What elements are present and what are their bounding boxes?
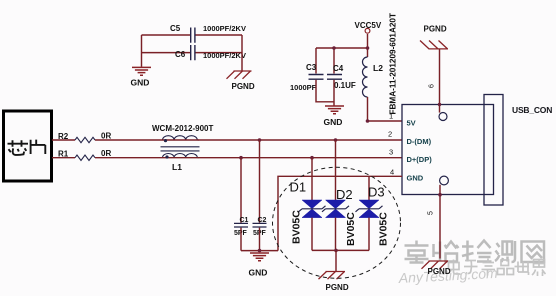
wire bus to PGND bbox=[335, 250, 337, 271]
svg-text:D+(DP): D+(DP) bbox=[407, 155, 433, 164]
svg-text:USB_CON: USB_CON bbox=[512, 105, 552, 115]
wire D2 to bus bbox=[335, 218, 337, 251]
wire C1 drop bbox=[240, 158, 242, 223]
svg-text:1000PF: 1000PF bbox=[290, 83, 317, 92]
svg-text:C6: C6 bbox=[175, 50, 186, 59]
wire L1 to pin2 (D- line) bbox=[198, 139, 402, 141]
svg-text:BV05C: BV05C bbox=[345, 212, 357, 246]
connector USB_CON main box bbox=[402, 105, 494, 195]
wire C3/C4 bottoms to GND bbox=[316, 80, 334, 106]
svg-text:D-(DM): D-(DM) bbox=[407, 137, 432, 146]
svg-text:D2: D2 bbox=[336, 187, 353, 202]
wire C6 row bbox=[142, 52, 243, 54]
svg-text:GND: GND bbox=[249, 268, 268, 278]
子 bbox=[464, 261, 478, 274]
node D- to D2 bbox=[334, 138, 338, 142]
品 bbox=[498, 260, 514, 275]
svg-text:1000PF/2KV: 1000PF/2KV bbox=[203, 51, 246, 60]
svg-text:D3: D3 bbox=[368, 185, 385, 200]
capacitor C3 bbox=[309, 75, 324, 80]
峪 bbox=[434, 242, 459, 262]
svg-text:3: 3 bbox=[389, 148, 393, 157]
wire C5/C6 right vertical bbox=[241, 35, 243, 71]
wire C5 row bbox=[142, 34, 243, 36]
svg-text:L1: L1 bbox=[172, 162, 182, 172]
wire L1 to pin3 (D+ line) bbox=[198, 157, 402, 159]
svg-text:C1: C1 bbox=[240, 217, 249, 224]
检 bbox=[462, 241, 492, 262]
ground GND bottom bbox=[250, 253, 269, 261]
wire D1 to bus bbox=[311, 218, 313, 251]
网 bbox=[522, 242, 545, 263]
wire pin5 to PGND bottom-right bbox=[439, 185, 441, 259]
wire R1 to chip (D+ net) bbox=[52, 157, 75, 159]
svg-text:GND: GND bbox=[131, 78, 150, 88]
svg-text:0.1UF: 0.1UF bbox=[334, 81, 356, 90]
power ground PGND bottom-center bbox=[319, 272, 346, 280]
svg-text:R1: R1 bbox=[58, 150, 69, 159]
wire C4 drop bbox=[333, 48, 335, 74]
svg-text:GND: GND bbox=[407, 174, 424, 183]
node D+ to D1 bbox=[310, 156, 314, 160]
TVS diode D3 bbox=[356, 200, 383, 218]
svg-text:C4: C4 bbox=[333, 64, 344, 73]
产 bbox=[482, 259, 496, 276]
wire C2 drop bbox=[259, 140, 261, 223]
wire VCC down to L2 bbox=[367, 34, 369, 57]
svg-text:PGND: PGND bbox=[326, 283, 349, 292]
wire GND net riser to pin4 bbox=[278, 176, 402, 250]
TVS diode D2 bbox=[322, 200, 349, 218]
svg-text:1000PF/2KV: 1000PF/2KV bbox=[203, 24, 246, 33]
svg-text:0R: 0R bbox=[101, 149, 111, 158]
common-mode choke L1 WCM-2012-900T bbox=[161, 136, 200, 158]
resistor R2 bbox=[75, 137, 95, 142]
wire R2 to L1 bbox=[95, 139, 161, 141]
svg-text:C2: C2 bbox=[258, 217, 267, 224]
wire D3 drop bbox=[368, 176, 370, 200]
capacitor C1 bbox=[234, 223, 248, 227]
wire GND bus bbox=[241, 250, 278, 252]
svg-text:1: 1 bbox=[389, 112, 393, 121]
wire D3 to bus bbox=[368, 218, 370, 251]
node D+ to C1 bbox=[239, 156, 243, 160]
power ground PGND bottom-right bbox=[422, 261, 449, 269]
capacitor C5 network: left vertical wire bbox=[141, 35, 143, 67]
svg-text:4: 4 bbox=[390, 168, 394, 177]
svg-text:D1: D1 bbox=[290, 180, 307, 195]
svg-text:0R: 0R bbox=[101, 132, 111, 141]
svg-text:C5: C5 bbox=[170, 24, 181, 33]
wire R1 to L1 bbox=[95, 157, 161, 159]
capacitor C5 bbox=[191, 28, 195, 43]
wire R2 to chip (D- net) bbox=[52, 139, 75, 141]
界 bbox=[532, 260, 546, 277]
chip box bbox=[4, 111, 52, 181]
svg-text:FBMA-11-201209-601A20T: FBMA-11-201209-601A20T bbox=[389, 13, 398, 114]
svg-text:2: 2 bbox=[388, 130, 392, 139]
power ground PGND top-left bbox=[227, 71, 252, 79]
svg-text:PGND: PGND bbox=[424, 25, 447, 34]
svg-text:PGND: PGND bbox=[232, 82, 255, 91]
TVS diode D1 bbox=[299, 200, 326, 218]
wire L2 to pin1 bbox=[368, 97, 403, 121]
dashed highlight ellipse bbox=[273, 167, 401, 278]
capacitor C6 bbox=[191, 45, 195, 60]
测 bbox=[495, 241, 515, 262]
svg-text:BV05C: BV05C bbox=[378, 212, 390, 246]
ground GND middle bbox=[325, 106, 344, 114]
node VCC branch bbox=[366, 46, 370, 50]
wire diode PGND bus bbox=[312, 249, 369, 251]
inductor L2 bbox=[363, 57, 368, 97]
wire D1 drop bbox=[311, 158, 313, 200]
watermark 电子产品世界 bbox=[449, 259, 546, 277]
pin 6 hole circle bbox=[439, 113, 447, 121]
watermark 嘉峪检测网 bbox=[405, 241, 545, 263]
capacitor C2 bbox=[253, 223, 267, 227]
svg-text:C3: C3 bbox=[306, 63, 317, 72]
svg-text:5: 5 bbox=[428, 211, 435, 215]
ground GND top-left bbox=[132, 67, 151, 75]
svg-text:PGND: PGND bbox=[428, 267, 451, 276]
chip label 芯片 bbox=[8, 140, 46, 155]
capacitor C4 bbox=[327, 75, 342, 80]
svg-text:BV05C: BV05C bbox=[291, 210, 303, 244]
pin 5 hole circle bbox=[440, 176, 449, 185]
svg-text:6: 6 bbox=[429, 84, 436, 88]
wire C1/C2 bottoms to bus bbox=[241, 228, 260, 251]
resistor R1 bbox=[75, 155, 95, 160]
电 bbox=[449, 260, 461, 275]
svg-text:GND: GND bbox=[324, 117, 343, 127]
svg-text:L2: L2 bbox=[373, 63, 383, 73]
svg-text:R2: R2 bbox=[58, 132, 69, 141]
wire PGND to pin6 bbox=[439, 49, 441, 113]
世 bbox=[515, 262, 530, 276]
svg-text:5V: 5V bbox=[407, 119, 416, 128]
svg-text:WCM-2012-900T: WCM-2012-900T bbox=[152, 124, 213, 133]
wire D2 drop bbox=[335, 140, 337, 200]
node D- to C2 bbox=[258, 138, 262, 142]
嘉 bbox=[405, 241, 429, 263]
connector shield rectangle bbox=[484, 95, 503, 206]
wire VCC branch to C3/C4 bbox=[316, 48, 368, 74]
